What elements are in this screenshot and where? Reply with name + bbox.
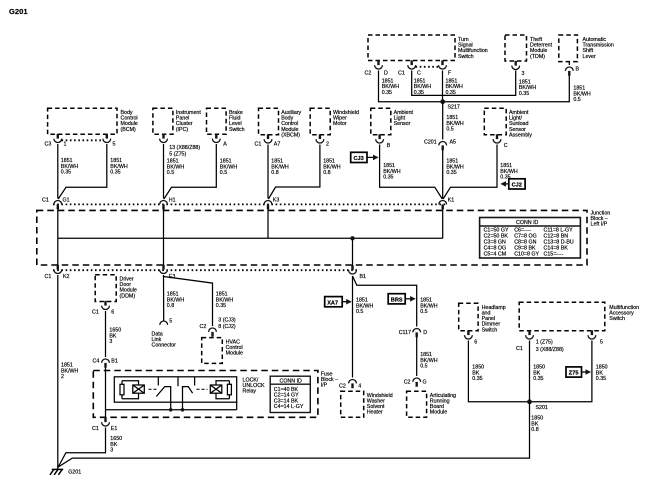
driver door module box [95, 275, 137, 302]
connector ref XA7 box with arrow [325, 297, 352, 307]
svg-text:Switch: Switch [229, 127, 245, 133]
wire bus down to K2 [57, 238, 59, 265]
wire label 1851 BK/WH 0.5 (B1) [356, 298, 374, 316]
XBCM pin A7 [255, 134, 281, 147]
articulating running board module box [407, 391, 456, 417]
svg-text:6: 6 [474, 340, 477, 346]
wire label 1851 BK/WH 0.35 (C) [414, 78, 432, 96]
relay right dashed link [197, 388, 208, 390]
connector ref CJ3 box with arrow [351, 152, 379, 162]
svg-text:0.8: 0.8 [271, 170, 278, 176]
wire headlamp switch to S201 [468, 341, 529, 402]
svg-text:H1: H1 [169, 198, 176, 204]
svg-text:5: 5 [600, 340, 603, 346]
svg-text:0.35: 0.35 [383, 175, 393, 181]
svg-text:Switch: Switch [482, 327, 498, 333]
wire bus down to B1 [352, 238, 354, 266]
wire label 1851 BK/WH 0.5 (IPC) [167, 159, 185, 177]
svg-text:3 (X88/Z88): 3 (X88/Z88) [536, 347, 564, 353]
svg-text:0.35: 0.35 [596, 376, 606, 382]
svg-text:0.35: 0.35 [533, 376, 543, 382]
wire E1 to ground [58, 428, 105, 468]
pin C of TSMS [398, 60, 421, 76]
svg-text:B1: B1 [360, 274, 367, 280]
svg-text:Switch: Switch [458, 54, 474, 60]
svg-text:A7: A7 [274, 142, 281, 148]
HVAC control module box [202, 338, 243, 364]
wire S217 down to C201 [442, 102, 444, 140]
relay left coil X-box [133, 385, 145, 393]
relay right coil loop wires [216, 381, 229, 399]
svg-text:C4=14 L-GY: C4=14 L-GY [274, 404, 304, 410]
wire label 1851 BK/WH 0.5 (brake) [220, 159, 238, 177]
data link connector pin 5 [160, 319, 173, 325]
wire label 1851 BK/WH 0.35 (D) [382, 78, 400, 96]
brake switch pin A [212, 134, 227, 148]
theft deterrent module box [505, 35, 553, 61]
wire label 1851 BK/WH 0.35 (BCM 5) [110, 158, 128, 176]
headlamp switch pin 6 [465, 330, 478, 345]
svg-text:Lever: Lever [583, 54, 596, 60]
svg-text:(DDM): (DDM) [120, 293, 136, 299]
svg-text:1 (Z75): 1 (Z75) [536, 340, 553, 346]
svg-text:5: 5 [169, 319, 172, 325]
junction block internal bus [58, 237, 443, 239]
splice S201 [527, 399, 548, 411]
splice S217 [440, 99, 460, 110]
svg-text:Sensor: Sensor [394, 121, 411, 127]
wire MAS C1 to S201 [529, 341, 531, 402]
ambient light sensor box [371, 108, 414, 135]
wire label 1850 BK 0.8 (S201) [531, 416, 543, 434]
svg-text:0.5: 0.5 [356, 309, 363, 315]
svg-text:6: 6 [111, 310, 114, 316]
relay right coil X-box [210, 385, 222, 393]
svg-text:0.35: 0.35 [110, 170, 120, 176]
windshield wiper motor box [310, 108, 359, 135]
svg-text:5: 5 [113, 142, 116, 148]
connector ref BRS box with arrow [388, 294, 416, 304]
wire K3 to bus [267, 207, 269, 238]
svg-text:K3: K3 [273, 198, 280, 204]
wire sunload sensor to K1 [443, 145, 497, 200]
svg-text:0.5: 0.5 [220, 170, 227, 176]
svg-text:S201: S201 [536, 405, 548, 411]
BCM pin 5 [103, 134, 116, 148]
wire label 1851 BK/WH 0.5 (C117) [420, 352, 438, 370]
wire C201 down to K1 [442, 150, 444, 199]
svg-text:4: 4 [358, 384, 361, 390]
body control module box [48, 108, 138, 134]
svg-text:C15=----: C15=---- [544, 252, 564, 258]
wire TDM to F vertical [443, 71, 516, 96]
wire label 1851 BK/WH 0.35 (A5) [446, 159, 464, 177]
CONN ID table (fuse block) [270, 376, 310, 412]
wire BCM pin5 to G1 [58, 144, 107, 199]
svg-text:C1: C1 [92, 310, 99, 316]
pin B of shift lever [565, 62, 579, 76]
wire XBCM to K3 [267, 145, 269, 199]
wire B1 into fuse block down to E1 [105, 368, 107, 422]
wire E3 to data link connector [163, 275, 165, 321]
wire label 1851 BK/WH 0.8 (XBCM) [271, 159, 289, 177]
relay left dashed link [149, 388, 158, 390]
dotted line through junction block bottom pins [53, 269, 357, 271]
svg-text:0.35: 0.35 [382, 90, 392, 96]
svg-text:(TDM): (TDM) [530, 54, 545, 60]
wire E3 branch to HVAC [164, 277, 213, 327]
CONN ID table (junction block) [480, 218, 581, 259]
svg-text:3 (CJ3): 3 (CJ3) [218, 317, 236, 323]
wire S201 to ground [58, 402, 529, 467]
wire label 1850 BK 0.35 (MAS C1) [533, 365, 545, 383]
wire label 1851 BK/WH 0.5 (ATSL) [573, 86, 591, 104]
lock/unlock relay box [114, 377, 265, 402]
svg-text:G201: G201 [9, 7, 28, 16]
svg-text:C1: C1 [255, 142, 262, 148]
fuse block pin E1 [92, 417, 117, 432]
fuse block pin B1 [93, 359, 118, 368]
wire brake switch to H1 [164, 144, 216, 199]
dotted line above junction block top pins [53, 203, 447, 205]
instrument panel cluster box [153, 108, 201, 134]
svg-text:C: C [504, 143, 508, 149]
svg-text:(BCM): (BCM) [121, 127, 137, 133]
wire label 1851 BK/WH 0.5 (BRS) [420, 298, 438, 316]
sunload sensor pin C [493, 134, 508, 149]
svg-text:0.8: 0.8 [531, 427, 538, 433]
svg-text:XA7: XA7 [327, 300, 338, 306]
svg-text:Assembly: Assembly [509, 132, 532, 138]
svg-text:CJ2: CJ2 [512, 183, 522, 189]
svg-text:I/P: I/P [321, 383, 328, 389]
data link connector label [152, 332, 177, 349]
pin F of TSMS [439, 60, 452, 76]
MAS pin C1 (1/3) [516, 330, 564, 353]
wiper motor pin 2 [316, 134, 329, 147]
pin K1 junction block [439, 198, 454, 210]
relay left coil loop wires [122, 381, 139, 399]
svg-text:B: B [576, 67, 580, 73]
wire ambient light sensor to K1 [380, 145, 443, 200]
svg-text:0.35: 0.35 [472, 376, 482, 382]
dotted connector link BCM pins [62, 139, 104, 141]
svg-text:0.5: 0.5 [420, 309, 427, 315]
svg-text:Motor: Motor [333, 121, 347, 127]
svg-text:C2: C2 [200, 324, 207, 330]
wire label 1650 BK 3 (DDM) [109, 328, 121, 346]
pin E3 junction block bottom [160, 265, 176, 280]
wire bus down to E3 [163, 238, 165, 265]
wire TSMS C to F [412, 71, 443, 96]
svg-text:K2: K2 [63, 274, 70, 280]
wire label 1851 BK/WH 0.35 (F) [446, 78, 464, 96]
svg-text:Switch: Switch [609, 316, 625, 322]
wire label 1851 BK/WH 0.5 (S217) [446, 115, 464, 133]
ambient light/sunload sensor assembly box [484, 108, 532, 138]
svg-text:A5: A5 [450, 140, 457, 146]
svg-text:D: D [423, 330, 427, 336]
svg-text:2: 2 [326, 142, 329, 148]
automatic transmission shift lever box [559, 35, 614, 62]
wire B1 branch to BRS wire [353, 276, 417, 327]
svg-text:Module: Module [226, 351, 243, 357]
svg-text:G1: G1 [63, 198, 70, 204]
ground symbol G201 [50, 466, 81, 476]
svg-text:0.8: 0.8 [167, 303, 174, 309]
wire label 1851 BK/WH 0.8 (wiper) [323, 159, 341, 177]
svg-text:Z75: Z75 [569, 371, 579, 377]
DDM pin 6 [92, 301, 114, 316]
relay right resistor [227, 381, 231, 399]
svg-text:0.5: 0.5 [420, 364, 427, 370]
svg-text:C5=4 CM: C5=4 CM [484, 252, 507, 258]
wire label 1851 BK/WH 0.35 (HVAC) [216, 292, 234, 310]
connector ref Z75 box with arrow [566, 367, 591, 377]
svg-text:0.35: 0.35 [216, 303, 226, 309]
wire label 1851 BK/WH 0.35 (BCM 1) [61, 158, 79, 176]
svg-text:0.5: 0.5 [446, 127, 453, 133]
svg-text:C1: C1 [42, 198, 49, 204]
wire C117 to articulating module [416, 337, 418, 376]
pin B1 junction block bottom [349, 265, 366, 280]
svg-text:A: A [223, 142, 227, 148]
svg-text:G: G [423, 380, 427, 386]
dotted connector link C-F [416, 66, 439, 68]
relay right switch [183, 377, 195, 410]
wire MAS 5 to S201 [530, 341, 592, 402]
IPC pin 13 [160, 134, 201, 158]
svg-text:Relay: Relay [243, 389, 257, 395]
svg-text:Connector: Connector [152, 343, 177, 349]
pin 3 of TDM [512, 61, 525, 77]
svg-text:8 (CJ2): 8 (CJ2) [218, 324, 236, 330]
wire G1 to bus [57, 207, 59, 238]
pin D of TSMS [365, 60, 389, 76]
svg-text:(XBCM): (XBCM) [281, 132, 300, 138]
svg-text:3: 3 [109, 339, 112, 345]
svg-text:B1: B1 [111, 359, 118, 365]
pin K2 junction block bottom [45, 265, 70, 280]
svg-text:CONN ID: CONN ID [280, 378, 303, 384]
svg-text:C: C [417, 71, 421, 77]
ambient light sensor pin B [376, 134, 391, 149]
relay center post [177, 377, 179, 386]
svg-text:0.5: 0.5 [167, 170, 174, 176]
svg-text:Module: Module [430, 410, 447, 416]
wire label 1650 BK 3 (E1) [110, 436, 122, 454]
svg-text:C117: C117 [399, 330, 411, 336]
svg-text:BRS: BRS [391, 297, 403, 303]
wire TSMS F down [442, 71, 444, 102]
turn signal multifunction switch box [368, 35, 488, 61]
junction block dashed outline [37, 210, 610, 265]
brake fluid level switch box [207, 108, 245, 134]
svg-text:Heater: Heater [367, 410, 383, 416]
wire K1 to bus [442, 207, 444, 238]
svg-text:13 (X88/Z88): 13 (X88/Z88) [169, 145, 200, 151]
svg-text:Left I/P: Left I/P [591, 222, 608, 228]
windshield washer solvent heater pin 4 [339, 379, 361, 389]
junction node on bus [350, 236, 354, 240]
wire K2 down to ground [57, 275, 59, 467]
svg-text:(IPC): (IPC) [176, 127, 189, 133]
wire BCM pin1 to G1 [57, 144, 59, 199]
svg-text:C1: C1 [45, 274, 52, 280]
svg-text:S217: S217 [448, 105, 460, 111]
svg-text:0.35: 0.35 [446, 170, 456, 176]
svg-text:3: 3 [522, 71, 525, 77]
wire H1 to bus [163, 207, 165, 238]
wire label 1851 BK/WH 0.35 (TDM) [519, 79, 537, 97]
BCM pin 1 [45, 134, 67, 148]
wire TSMS D to S217 [379, 71, 443, 102]
inline connector C117 pin D [399, 328, 428, 337]
svg-text:0.5: 0.5 [573, 97, 580, 103]
articulating running board module pin G [404, 378, 427, 387]
relay ground bus [106, 402, 237, 411]
multifunction accessory switch box [519, 302, 639, 330]
svg-text:G201: G201 [68, 470, 81, 476]
svg-text:C2: C2 [404, 380, 411, 386]
inline connector C201 pin A5 [424, 140, 456, 151]
wire DDM to fuse block B1 [105, 311, 107, 357]
relay left switch [156, 377, 170, 410]
svg-text:C201: C201 [424, 140, 437, 146]
wire wiper motor to K3 [268, 145, 320, 200]
wire label 1851 BK/WH 0.8 (DLC) [167, 292, 185, 310]
HVAC module pin C2 [200, 317, 236, 336]
svg-text:C1: C1 [92, 426, 99, 432]
svg-text:CONN ID: CONN ID [516, 220, 539, 226]
svg-text:D: D [384, 71, 388, 77]
connector ref CJ2 box with arrow [500, 179, 525, 189]
pin H1 junction block [160, 198, 176, 210]
svg-text:C10=8 GY: C10=8 GY [514, 252, 539, 258]
svg-text:C1: C1 [516, 346, 523, 352]
wire B1 down to washer heater [352, 276, 354, 378]
windshield washer solvent heater box [341, 391, 393, 417]
MAS pin 5 [588, 330, 603, 345]
svg-text:C2: C2 [339, 384, 346, 390]
svg-text:0.8: 0.8 [323, 170, 330, 176]
svg-text:K1: K1 [448, 198, 455, 204]
svg-text:C2: C2 [365, 71, 372, 77]
svg-text:0.35: 0.35 [519, 91, 529, 97]
svg-text:3: 3 [110, 448, 113, 454]
svg-text:0.35: 0.35 [61, 170, 71, 176]
svg-text:C3: C3 [45, 142, 52, 148]
wire label 1850 BK 0.35 (MAS 5) [596, 365, 608, 383]
wire label 1851 BK/WH 0.35 (ALS) [383, 163, 401, 181]
svg-text:C1: C1 [398, 71, 405, 77]
svg-text:2: 2 [61, 374, 64, 380]
svg-text:B: B [387, 143, 391, 149]
pin G1 junction block [42, 198, 70, 210]
auxiliary body control module box [259, 108, 302, 138]
svg-text:1: 1 [64, 142, 67, 148]
headlamp and panel dimmer switch box [459, 303, 506, 333]
wire label 1851 BK/WH 2 (K2) [61, 363, 79, 381]
fuse block I/P dashed outline [93, 371, 338, 418]
wire shift lever to S217 [443, 76, 570, 102]
svg-text:CJ3: CJ3 [354, 156, 364, 162]
wire IPC to H1 [163, 144, 165, 199]
wire label 1850 BK 0.35 (headlamp) [472, 365, 484, 383]
relay left resistor [120, 381, 124, 399]
svg-text:C4: C4 [93, 359, 100, 365]
svg-text:E1: E1 [111, 426, 118, 432]
wire label 1851 BK/WH 0.35 (sunload) [500, 163, 518, 181]
pin K3 junction block [264, 198, 279, 210]
svg-text:5 (Z75): 5 (Z75) [169, 151, 186, 157]
